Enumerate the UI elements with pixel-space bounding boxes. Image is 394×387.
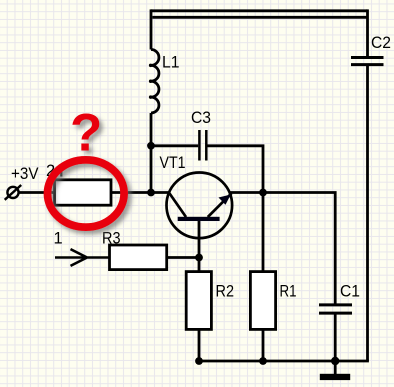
ground stub <box>334 361 337 374</box>
wire R1 bottom <box>262 329 265 361</box>
VT1 base bar <box>178 217 220 221</box>
svg-text:C1: C1 <box>340 283 360 301</box>
node ground junction <box>331 357 339 365</box>
red highlight ellipse <box>48 160 125 227</box>
node R2 bottom <box>195 357 203 365</box>
svg-text:R2: R2 <box>216 283 235 301</box>
transistor VT1 circle <box>167 173 233 239</box>
VT1 collector lead <box>169 193 186 218</box>
wire R1 branch top <box>262 193 265 272</box>
VT1 emitter lead <box>208 193 232 217</box>
wire emitter to C1 branch <box>230 193 336 305</box>
wire left vertical top <box>150 9 153 49</box>
svg-text:C3: C3 <box>191 109 211 127</box>
svg-text:+3V: +3V <box>11 165 39 183</box>
node A collector junction <box>147 189 155 197</box>
svg-text:R3: R3 <box>102 230 121 248</box>
node base junction <box>195 254 203 262</box>
inductor L1 <box>151 50 159 114</box>
resistor unknown (circled) <box>55 180 112 205</box>
svg-text:R1: R1 <box>280 283 297 301</box>
wire right vertical C2 to bottom rail <box>366 66 369 361</box>
wire bottom rail <box>199 360 369 363</box>
wire C1 bottom <box>334 315 337 362</box>
wire R2 bottom <box>198 329 201 361</box>
input terminal arrow 1 <box>55 249 110 266</box>
svg-text:VT1: VT1 <box>160 154 186 172</box>
node emitter junction <box>259 189 267 197</box>
terminal +3V <box>7 187 18 198</box>
svg-text:L1: L1 <box>162 54 180 72</box>
ground symbol <box>320 374 350 380</box>
resistor R1 <box>250 272 275 330</box>
wire left vertical bottom <box>150 113 153 193</box>
wire top rail lower <box>153 16 368 19</box>
wire right vertical top to C2 <box>366 9 369 56</box>
capacitor C2 <box>351 58 384 65</box>
capacitor C1 <box>319 305 352 313</box>
wire top rail upper <box>151 9 368 12</box>
resistor R2 <box>186 272 211 330</box>
resistor R3 <box>110 245 167 270</box>
svg-text:?: ? <box>70 104 102 163</box>
wire C3 right to emitter node <box>208 146 264 193</box>
wire R3 to base node <box>167 256 199 259</box>
hidden label stroke <box>60 165 62 177</box>
node L1-C3 junction <box>147 142 155 150</box>
capacitor C3 <box>199 130 206 161</box>
wire C3 left <box>151 144 198 147</box>
wire base lead down through R2 top <box>198 221 201 272</box>
VT1 emitter arrowhead <box>219 195 231 205</box>
svg-text:1: 1 <box>54 230 63 248</box>
wire +3V to resistor <box>19 191 55 194</box>
wire resistor to collector <box>111 191 169 194</box>
svg-text:C2: C2 <box>371 34 391 52</box>
node R1 bottom <box>259 357 267 365</box>
